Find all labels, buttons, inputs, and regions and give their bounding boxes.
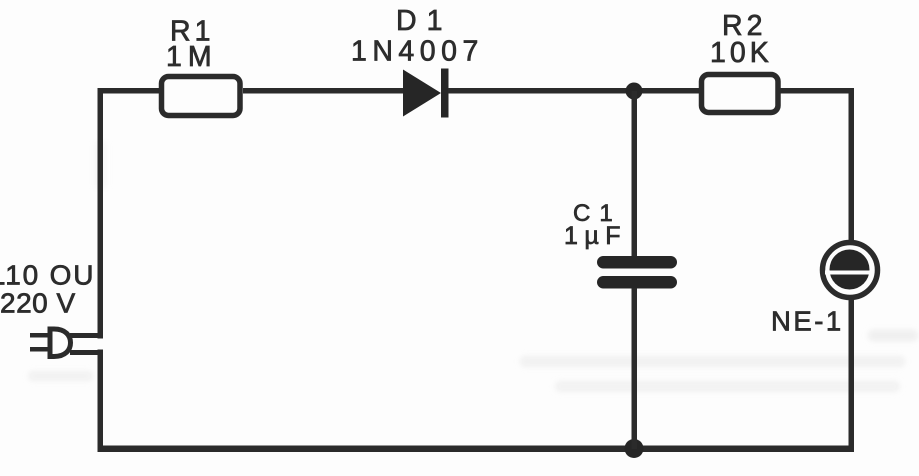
wire: C1 to node B [632, 288, 638, 449]
wire: left rail lower [98, 350, 104, 452]
wire: node A down to C1 [632, 91, 638, 258]
plug P1 [30, 329, 103, 357]
wire: R2 to top-right corner [780, 88, 854, 94]
resistor R1 [162, 77, 241, 116]
junction node B [625, 439, 644, 458]
wire: top rail left corner to R1 [98, 88, 162, 94]
svg-text:110 OU: 110 OU [0, 260, 95, 291]
junction node A [626, 83, 643, 100]
faint bleed-through smudges [28, 140, 918, 392]
svg-text:10K: 10K [710, 37, 773, 69]
wire: R1 to D1 [243, 88, 404, 94]
wire: right rail lower [849, 298, 855, 452]
svg-text:1N4007: 1N4007 [351, 36, 484, 68]
svg-text:NE-1: NE-1 [771, 306, 844, 337]
svg-text:D1: D1 [396, 5, 452, 37]
neon lamp NE-1 [823, 243, 878, 298]
svg-text:1M: 1M [166, 41, 218, 73]
resistor R2 [702, 75, 779, 113]
wire: left rail upper [98, 88, 104, 339]
svg-text:220 V: 220 V [0, 288, 76, 319]
svg-text:1µF: 1µF [564, 222, 627, 250]
wire: bottom rail [98, 446, 855, 453]
capacitor C1 [597, 256, 677, 289]
wire: D1 to R2 through node A [448, 88, 702, 94]
diode D1 [403, 69, 449, 118]
wire: right rail upper [849, 88, 855, 243]
